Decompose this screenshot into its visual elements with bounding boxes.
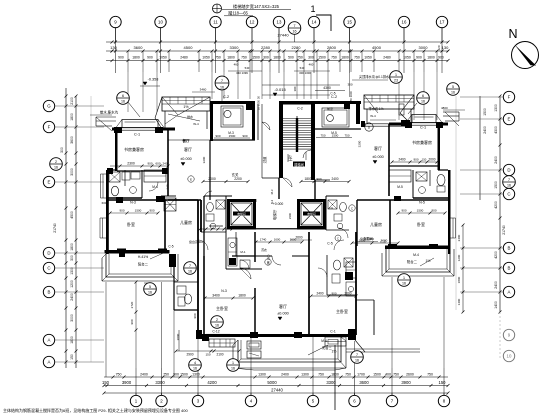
svg-text:1700: 1700 [357, 373, 365, 377]
svg-text:E: E [508, 117, 511, 122]
svg-text:4: 4 [194, 361, 196, 365]
master bedroom right labels [310, 292, 358, 315]
dark fixture block bath left [169, 254, 176, 267]
svg-text:750: 750 [241, 56, 247, 60]
north arrow compass [508, 27, 538, 69]
svg-text:150: 150 [205, 353, 210, 357]
detail bubble top 7/16 [288, 22, 301, 35]
svg-text:1050: 1050 [364, 56, 372, 60]
faint extension left [90, 96, 92, 362]
axis bubble right C [503, 188, 514, 199]
svg-text:750: 750 [320, 133, 325, 137]
svg-text:2300: 2300 [288, 212, 292, 219]
svg-text:书房兼客房: 书房兼客房 [412, 139, 432, 145]
axis bubble left A [43, 356, 54, 367]
right unit kitchen east wall [346, 232, 374, 335]
svg-text:1300: 1300 [258, 373, 266, 377]
svg-text:300: 300 [263, 56, 269, 60]
axis bubble top 9 [110, 16, 121, 27]
small level mark left unit [182, 138, 190, 143]
svg-text:1500: 1500 [135, 209, 142, 213]
interior dim cluster left unit [109, 209, 160, 215]
svg-text:主体结构为钢筋混凝土搅拌是否为6班，见结构施工图 P29-: 主体结构为钢筋混凝土搅拌是否为6班，见结构施工图 P29- 相关之土建与安装预留… [3, 407, 188, 413]
svg-text:2100: 2100 [216, 353, 223, 357]
right unit hall dims [300, 177, 351, 183]
svg-text:2200: 2200 [234, 177, 242, 181]
bath N-1 left unit [204, 191, 232, 256]
svg-text:300: 300 [70, 255, 74, 261]
right unit room top dim 2600 [290, 236, 400, 245]
axis bubble right F [503, 91, 514, 102]
window sill lines right wing east [451, 218, 456, 238]
bottom extension lines [106, 277, 444, 396]
right wing bedroom walls [357, 200, 450, 249]
svg-text:B: B [267, 261, 269, 265]
svg-text:2300: 2300 [127, 162, 135, 166]
svg-text:750: 750 [344, 133, 349, 137]
axis bubble top 14 [308, 16, 319, 27]
window sill lines left wing west [100, 218, 106, 238]
svg-text:±0.000: ±0.000 [277, 312, 289, 316]
elevator shaft right [297, 199, 326, 230]
svg-text:B: B [508, 266, 511, 271]
axis bubble bottom 6 [349, 395, 360, 406]
svg-text:W-4: W-4 [193, 122, 199, 126]
svg-text:窗台高900: 窗台高900 [189, 239, 203, 244]
svg-text:踏118—65: 踏118—65 [228, 10, 248, 17]
bottom main dims [102, 380, 446, 385]
svg-text:2720: 2720 [130, 301, 134, 308]
svg-text:300: 300 [347, 83, 352, 87]
detail bubble right 7/16 [503, 176, 516, 189]
canopy callout bubble right [408, 92, 429, 114]
svg-text:D: D [507, 168, 510, 173]
axis bubble top 11 [210, 16, 221, 27]
stair landing label [293, 162, 305, 167]
svg-text:7: 7 [189, 264, 191, 268]
svg-text:900: 900 [130, 319, 134, 324]
svg-text:1800: 1800 [273, 56, 281, 60]
svg-text:3000: 3000 [419, 45, 429, 50]
axis bubble left A [43, 334, 54, 345]
svg-text:10: 10 [507, 354, 512, 359]
title note: stair treads [213, 3, 292, 17]
svg-text:2: 2 [216, 318, 218, 322]
right wing bottom room [367, 282, 369, 334]
svg-text:A: A [48, 360, 51, 365]
svg-text:3600: 3600 [359, 380, 369, 385]
svg-text:750: 750 [215, 56, 221, 60]
closet right of bath [144, 170, 166, 191]
svg-text:排水沟 1%: 排水沟 1% [368, 106, 383, 111]
svg-text:C-5: C-5 [168, 245, 173, 249]
left dimension lines [65, 88, 67, 368]
svg-text:900: 900 [147, 162, 152, 166]
label 2000 left hall [168, 335, 196, 337]
svg-text:1500: 1500 [417, 209, 424, 213]
svg-text:900: 900 [413, 158, 418, 162]
svg-text:2400: 2400 [316, 292, 323, 296]
svg-text:玄关: 玄关 [232, 172, 239, 177]
svg-text:餐厅: 餐厅 [182, 138, 190, 143]
svg-text:3600: 3600 [134, 45, 144, 50]
svg-text:900600900: 900600900 [209, 224, 223, 228]
level dim lines above stair [262, 83, 353, 112]
rotated dims left wing lower [130, 281, 138, 332]
svg-text:16: 16 [148, 291, 152, 295]
study dim [110, 162, 170, 168]
svg-text:N-5: N-5 [419, 201, 425, 205]
svg-text:电梯间: 电梯间 [237, 212, 246, 216]
svg-text:F: F [508, 95, 511, 100]
svg-text:1300: 1300 [494, 104, 498, 112]
svg-text:G: G [47, 104, 51, 109]
svg-text:主卧室: 主卧室 [336, 308, 348, 314]
svg-text:1300: 1300 [301, 373, 309, 377]
canopy top-left corner [90, 110, 119, 132]
svg-text:阳台二: 阳台二 [138, 262, 149, 267]
svg-text:2600: 2600 [295, 236, 302, 240]
axis bubble bottom 3 [192, 395, 203, 406]
svg-text:13: 13 [277, 20, 282, 25]
svg-text:3000: 3000 [70, 168, 74, 176]
kitchen left door dim [214, 131, 250, 138]
svg-text:27440: 27440 [271, 388, 283, 393]
svg-text:2480: 2480 [180, 56, 188, 60]
svg-text:5: 5 [149, 285, 151, 289]
svg-text:客厅: 客厅 [184, 146, 192, 152]
section line bottom [334, 345, 336, 410]
svg-text:客厅: 客厅 [279, 303, 287, 309]
svg-text:900: 900 [193, 313, 197, 318]
long wall left unit x168-198 [165, 129, 198, 232]
circled D mark right [365, 123, 373, 131]
axis bubble bottom 1 [130, 395, 141, 406]
svg-text:电梯厅: 电梯厅 [272, 209, 277, 220]
svg-text:2900: 2900 [186, 353, 193, 357]
svg-text:4300: 4300 [323, 86, 331, 90]
axis bubble bottom 5 [307, 395, 318, 406]
big bay window right (1%) [364, 95, 414, 124]
svg-text:C: C [47, 266, 50, 271]
svg-text:300 1300: 300 1300 [299, 71, 311, 75]
dim line bottom left unit [175, 330, 241, 357]
small sub-dims below top strip [228, 63, 330, 76]
svg-text:2000: 2000 [176, 333, 180, 340]
svg-text:卧室: 卧室 [417, 221, 425, 227]
svg-text:120: 120 [437, 45, 441, 50]
svg-text:750: 750 [331, 56, 337, 60]
svg-text:2400: 2400 [483, 126, 487, 134]
svg-text:16: 16 [402, 20, 407, 25]
svg-text:主卧室: 主卧室 [216, 305, 228, 311]
svg-text:1: 1 [310, 4, 315, 14]
top dimension chain lines [106, 41, 448, 43]
right dim numbers [483, 104, 506, 309]
right inner dim line [457, 224, 465, 314]
corridor right [303, 150, 311, 158]
svg-text:2: 2 [55, 160, 57, 164]
big callout bubble left kitchen [192, 76, 229, 101]
svg-text:尖顶排水沟 ф0.1排水: 尖顶排水沟 ф0.1排水 [359, 74, 390, 79]
svg-text:F: F [48, 125, 51, 130]
canopy top-right corner [441, 106, 465, 126]
svg-text:5: 5 [452, 85, 454, 89]
svg-text:300: 300 [60, 147, 64, 153]
axis bubble top 15 [344, 16, 355, 27]
right bedroom labels [356, 196, 425, 244]
svg-text:750: 750 [116, 373, 122, 377]
lower bath left unit [174, 232, 204, 336]
svg-text:3600: 3600 [70, 136, 74, 144]
svg-text:750: 750 [354, 56, 360, 60]
svg-text:门厅: 门厅 [287, 154, 292, 161]
svg-text:16: 16 [215, 324, 219, 328]
svg-text:1740: 1740 [260, 238, 267, 242]
svg-text:2400: 2400 [457, 234, 461, 241]
svg-text:540: 540 [245, 66, 250, 70]
svg-text:4200: 4200 [207, 380, 217, 385]
svg-text:16: 16 [451, 91, 455, 95]
right closet [389, 170, 411, 189]
svg-text:460: 460 [309, 63, 314, 67]
svg-text:3300: 3300 [230, 45, 240, 50]
svg-text:2480: 2480 [383, 56, 391, 60]
axis bubble right D [503, 164, 514, 175]
svg-text:+0.000: +0.000 [273, 202, 284, 206]
svg-text:4200: 4200 [494, 201, 498, 209]
svg-text:B: B [508, 246, 511, 251]
bottom ticks row2 [103, 384, 450, 395]
right unit corridor labels [335, 228, 373, 241]
axis bubble left D [43, 247, 54, 258]
svg-text:16: 16 [188, 270, 192, 274]
left ticks [65, 95, 78, 364]
svg-text:散水,集水坑: 散水,集水坑 [100, 110, 119, 115]
svg-text:1%: 1% [332, 350, 337, 354]
svg-text:-0.015: -0.015 [274, 87, 286, 92]
svg-text:3300: 3300 [155, 380, 165, 385]
detail bubble 5/16 top right [447, 83, 460, 96]
svg-text:1400: 1400 [494, 301, 498, 309]
svg-text:750: 750 [345, 373, 351, 377]
master bedroom left labels [193, 289, 255, 319]
svg-text:±0.000: ±0.000 [180, 157, 192, 161]
svg-text:900: 900 [119, 209, 124, 213]
svg-text:E: E [190, 178, 192, 182]
svg-text:21740: 21740 [53, 223, 57, 233]
svg-text:1500: 1500 [252, 56, 260, 60]
svg-text:1500: 1500 [483, 108, 487, 116]
study top wall and bay window C-1 right [389, 115, 448, 129]
svg-text:1500: 1500 [332, 133, 339, 137]
svg-text:W-4: W-4 [370, 114, 376, 118]
svg-text:150: 150 [439, 380, 447, 385]
axis bubble top 16 [398, 16, 409, 27]
svg-text:C-5: C-5 [380, 240, 385, 244]
svg-text:过道: 过道 [262, 156, 267, 163]
svg-text:900: 900 [416, 56, 422, 60]
svg-text:1: 1 [232, 361, 234, 365]
svg-text:300: 300 [308, 56, 314, 60]
center living room label [277, 303, 289, 320]
axis bubble right B [503, 242, 514, 253]
svg-text:1050: 1050 [202, 56, 210, 60]
bathroom N-3 fixtures [109, 172, 140, 196]
svg-text:C-2: C-2 [331, 95, 337, 99]
svg-text:21740: 21740 [502, 225, 506, 235]
svg-text:1800: 1800 [70, 243, 74, 251]
svg-text:900: 900 [215, 134, 220, 138]
dims center living top [255, 238, 304, 266]
right study room walls [389, 124, 440, 196]
svg-text:M-4: M-4 [321, 339, 327, 343]
svg-text:A: A [508, 290, 511, 295]
axis bubble right A [503, 286, 514, 297]
kitchen below left elevator [226, 232, 262, 269]
detail bubble 4/16 bottom left [189, 359, 202, 372]
svg-text:C: C [337, 237, 339, 241]
bath right unit below elevator [318, 255, 356, 295]
west wall window upper [101, 174, 126, 257]
svg-text:4200: 4200 [494, 251, 498, 259]
corner window left living [161, 184, 176, 211]
svg-text:2400: 2400 [70, 293, 74, 301]
svg-text:750: 750 [297, 56, 303, 60]
svg-text:2280: 2280 [292, 45, 302, 50]
axis bubble left B [43, 286, 54, 297]
svg-text:C-1: C-1 [134, 133, 140, 137]
level -0.358 top left [140, 78, 160, 87]
svg-text:1800: 1800 [341, 56, 349, 60]
svg-text:900: 900 [331, 292, 336, 296]
svg-text:12: 12 [250, 20, 255, 25]
svg-text:2400: 2400 [281, 373, 289, 377]
svg-text:C-2: C-2 [223, 95, 229, 99]
level -0.015 [273, 87, 286, 96]
svg-text:1300: 1300 [192, 373, 200, 377]
svg-text:M-4: M-4 [413, 253, 419, 257]
stair arrows [288, 152, 306, 166]
flower box left of balcony [247, 341, 261, 358]
svg-text:16: 16 [402, 282, 406, 286]
svg-text:150: 150 [422, 158, 427, 162]
svg-text:2400: 2400 [331, 177, 338, 181]
svg-text:卧室: 卧室 [127, 221, 135, 227]
kitchen right counter [322, 104, 350, 127]
svg-text:排水: 排水 [187, 114, 193, 119]
svg-text:窗台高900: 窗台高900 [360, 236, 374, 241]
svg-text:10 1550 30: 10 1550 30 [257, 96, 261, 110]
top dimension ticks row1 [111, 41, 450, 53]
right study dim [391, 158, 439, 164]
svg-text:16: 16 [121, 100, 125, 104]
svg-text:B: B [48, 290, 51, 295]
axis bubble left C [43, 262, 54, 273]
svg-text:5000: 5000 [267, 380, 277, 385]
svg-text:2800: 2800 [327, 45, 337, 50]
top dimension numbers row2 [118, 56, 444, 60]
svg-text:6: 6 [422, 94, 424, 98]
svg-text:2400: 2400 [494, 156, 498, 164]
left unit hall dims [202, 172, 250, 183]
svg-text:400: 400 [385, 373, 391, 377]
axis bubble bottom 8 [438, 395, 449, 406]
svg-text:300: 300 [293, 86, 297, 91]
kitchen right walls [312, 101, 361, 129]
svg-text:7: 7 [221, 79, 223, 83]
balcony left wing [102, 251, 178, 281]
svg-text:130: 130 [442, 45, 449, 50]
axis bubble top 13 [273, 16, 284, 27]
top dimension ticks row2 [111, 50, 450, 63]
svg-text:1050: 1050 [403, 56, 411, 60]
svg-text:1800: 1800 [227, 56, 235, 60]
svg-text:240: 240 [162, 162, 167, 166]
svg-text:电梯间: 电梯间 [307, 212, 316, 216]
kitchen N-1 dim ticks [199, 224, 234, 231]
svg-text:M-3: M-3 [270, 189, 274, 194]
corridor dims rotated [257, 96, 268, 164]
svg-text:600: 600 [102, 201, 107, 205]
svg-text:N-3: N-3 [221, 289, 227, 293]
axis bubble left F [43, 121, 54, 132]
svg-text:1800: 1800 [132, 56, 140, 60]
bottom small dims [116, 373, 433, 377]
svg-text:儿童房: 儿童房 [370, 221, 382, 227]
axis bubble right E [503, 113, 514, 124]
window C-5 label left wing [168, 239, 203, 249]
svg-text:340 1399: 340 1399 [236, 71, 248, 75]
top extension lines [116, 28, 443, 73]
right lower gray bubbles [503, 329, 514, 340]
svg-text:3200: 3200 [202, 156, 206, 163]
svg-text:1500: 1500 [494, 181, 498, 189]
svg-text:16: 16 [355, 359, 359, 363]
svg-text:1500: 1500 [318, 56, 326, 60]
svg-text:900: 900 [438, 56, 444, 60]
svg-text:23: 23 [394, 79, 398, 83]
svg-text:C-1: C-1 [330, 330, 336, 334]
elevator lobby [256, 199, 297, 229]
kitchen right door dim [316, 131, 352, 138]
svg-text:H-41%: H-41% [138, 255, 148, 259]
black column bottom left [202, 334, 209, 341]
svg-text:540: 540 [300, 66, 305, 70]
svg-text:2400: 2400 [494, 281, 498, 289]
svg-text:16: 16 [293, 30, 297, 34]
detail bubble balcony left [144, 283, 157, 296]
svg-text:2280: 2280 [261, 45, 271, 50]
svg-text:900: 900 [316, 177, 321, 181]
axis bubble bottom 7 [386, 395, 397, 406]
svg-text:2000: 2000 [208, 177, 216, 181]
svg-text:150: 150 [70, 354, 74, 360]
svg-text:16: 16 [220, 86, 224, 90]
svg-text:4500: 4500 [372, 45, 382, 50]
detail bubble 7/16 left lower [184, 262, 197, 275]
svg-text:1%: 1% [183, 105, 189, 109]
svg-text:1500: 1500 [373, 373, 381, 377]
svg-text:1800: 1800 [70, 113, 74, 121]
kitchen left walls [168, 101, 255, 141]
door M-1 left unit [236, 232, 251, 279]
svg-text:±0.000: ±0.000 [372, 155, 384, 159]
svg-text:750: 750 [393, 373, 399, 377]
svg-text:140: 140 [166, 184, 170, 189]
center living walls [232, 232, 309, 335]
svg-text:1600: 1600 [274, 238, 281, 242]
